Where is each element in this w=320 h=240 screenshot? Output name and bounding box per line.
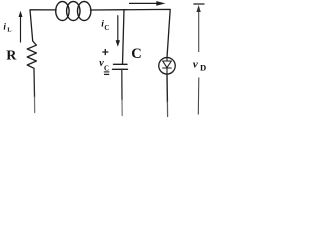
- underline under subscript C: [104, 71, 110, 73]
- diode D1 circle: [159, 58, 176, 75]
- voltage arrow v_D top bar: [193, 3, 204, 5]
- label - (v_C minus): [104, 73, 109, 75]
- svg-text:L: L: [7, 27, 12, 34]
- wire capacitor branch upper lead: [123, 10, 125, 65]
- label + (v_C plus): [102, 49, 108, 55]
- resistor R: [27, 41, 36, 68]
- inductor (three loops): [56, 2, 91, 21]
- wire diode bottom lead: [166, 74, 168, 102]
- wire capacitor bottom lead: [121, 69, 123, 100]
- current arrow (top wire): [129, 1, 166, 6]
- diode D1 triangle: [163, 61, 172, 68]
- wire top-left and left branch upper lead: [30, 10, 56, 41]
- diode D1 lead inside circle: [166, 58, 168, 74]
- diode D1 cathode bar: [163, 67, 172, 69]
- svg-text:C: C: [131, 46, 141, 62]
- current arrow i_L: [19, 11, 23, 43]
- voltage annotation lower line v_D: [197, 78, 200, 115]
- capacitor C top plate: [114, 63, 128, 65]
- svg-text:v: v: [193, 58, 198, 70]
- voltage arrow v_D (upper, with arrowhead): [196, 5, 200, 52]
- svg-text:R: R: [6, 49, 17, 64]
- svg-text:D: D: [200, 62, 206, 72]
- capacitor C bottom plate: [113, 68, 128, 70]
- svg-text:i: i: [3, 22, 6, 32]
- wire top-right and right branch upper lead: [90, 9, 170, 57]
- current arrow i_C: [116, 15, 120, 47]
- svg-text:C: C: [104, 25, 109, 32]
- wire left bottom lead: [33, 68, 36, 97]
